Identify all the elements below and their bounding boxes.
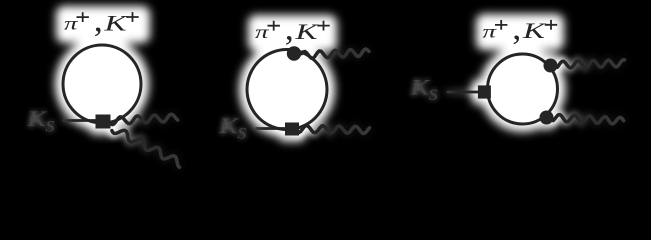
photon wavy line D3 upper <box>557 60 624 68</box>
svg-text:K: K <box>522 18 547 43</box>
svg-text:S: S <box>237 125 246 142</box>
photon wavy line D3 lower <box>553 115 623 124</box>
svg-text:S: S <box>46 118 55 135</box>
svg-text:S: S <box>429 87 438 104</box>
loop circle D2 <box>247 50 327 130</box>
svg-text:,: , <box>285 10 294 48</box>
photon wavy line D1 lower <box>112 130 179 167</box>
vertex dot D3 lower <box>540 111 554 125</box>
photon wavy line D2 lower <box>299 126 369 134</box>
vertex square D2 <box>285 123 299 136</box>
vertex square D3 <box>478 85 491 98</box>
vertex dot D2 <box>287 46 301 60</box>
photon wavy line D2 upper <box>302 49 369 58</box>
svg-text:,: , <box>512 9 521 47</box>
label K_S D2 <box>218 113 246 142</box>
svg-text:,: , <box>94 1 103 39</box>
label K_S D1 <box>26 106 54 135</box>
label K_S D3 <box>409 75 437 104</box>
photon wavy line D1 upper <box>111 114 178 124</box>
svg-text:K: K <box>409 75 430 100</box>
K_S propagator line D3 <box>448 91 479 94</box>
svg-text:K: K <box>103 10 128 35</box>
K_S propagator line D2 <box>257 127 288 130</box>
svg-text:K: K <box>294 19 319 44</box>
label pi+, K+ D3 <box>483 9 558 47</box>
vertex dot D3 upper <box>544 59 558 73</box>
label pi+, K+ D2 <box>255 10 330 48</box>
label pi+, K+ D1 <box>64 1 139 39</box>
loop circle D1 <box>63 45 141 123</box>
vertex square D1 <box>96 115 111 129</box>
K_S propagator line D1 <box>64 119 97 122</box>
svg-text:K: K <box>26 106 47 131</box>
svg-text:K: K <box>218 113 239 138</box>
loop circle D3 <box>488 54 558 124</box>
